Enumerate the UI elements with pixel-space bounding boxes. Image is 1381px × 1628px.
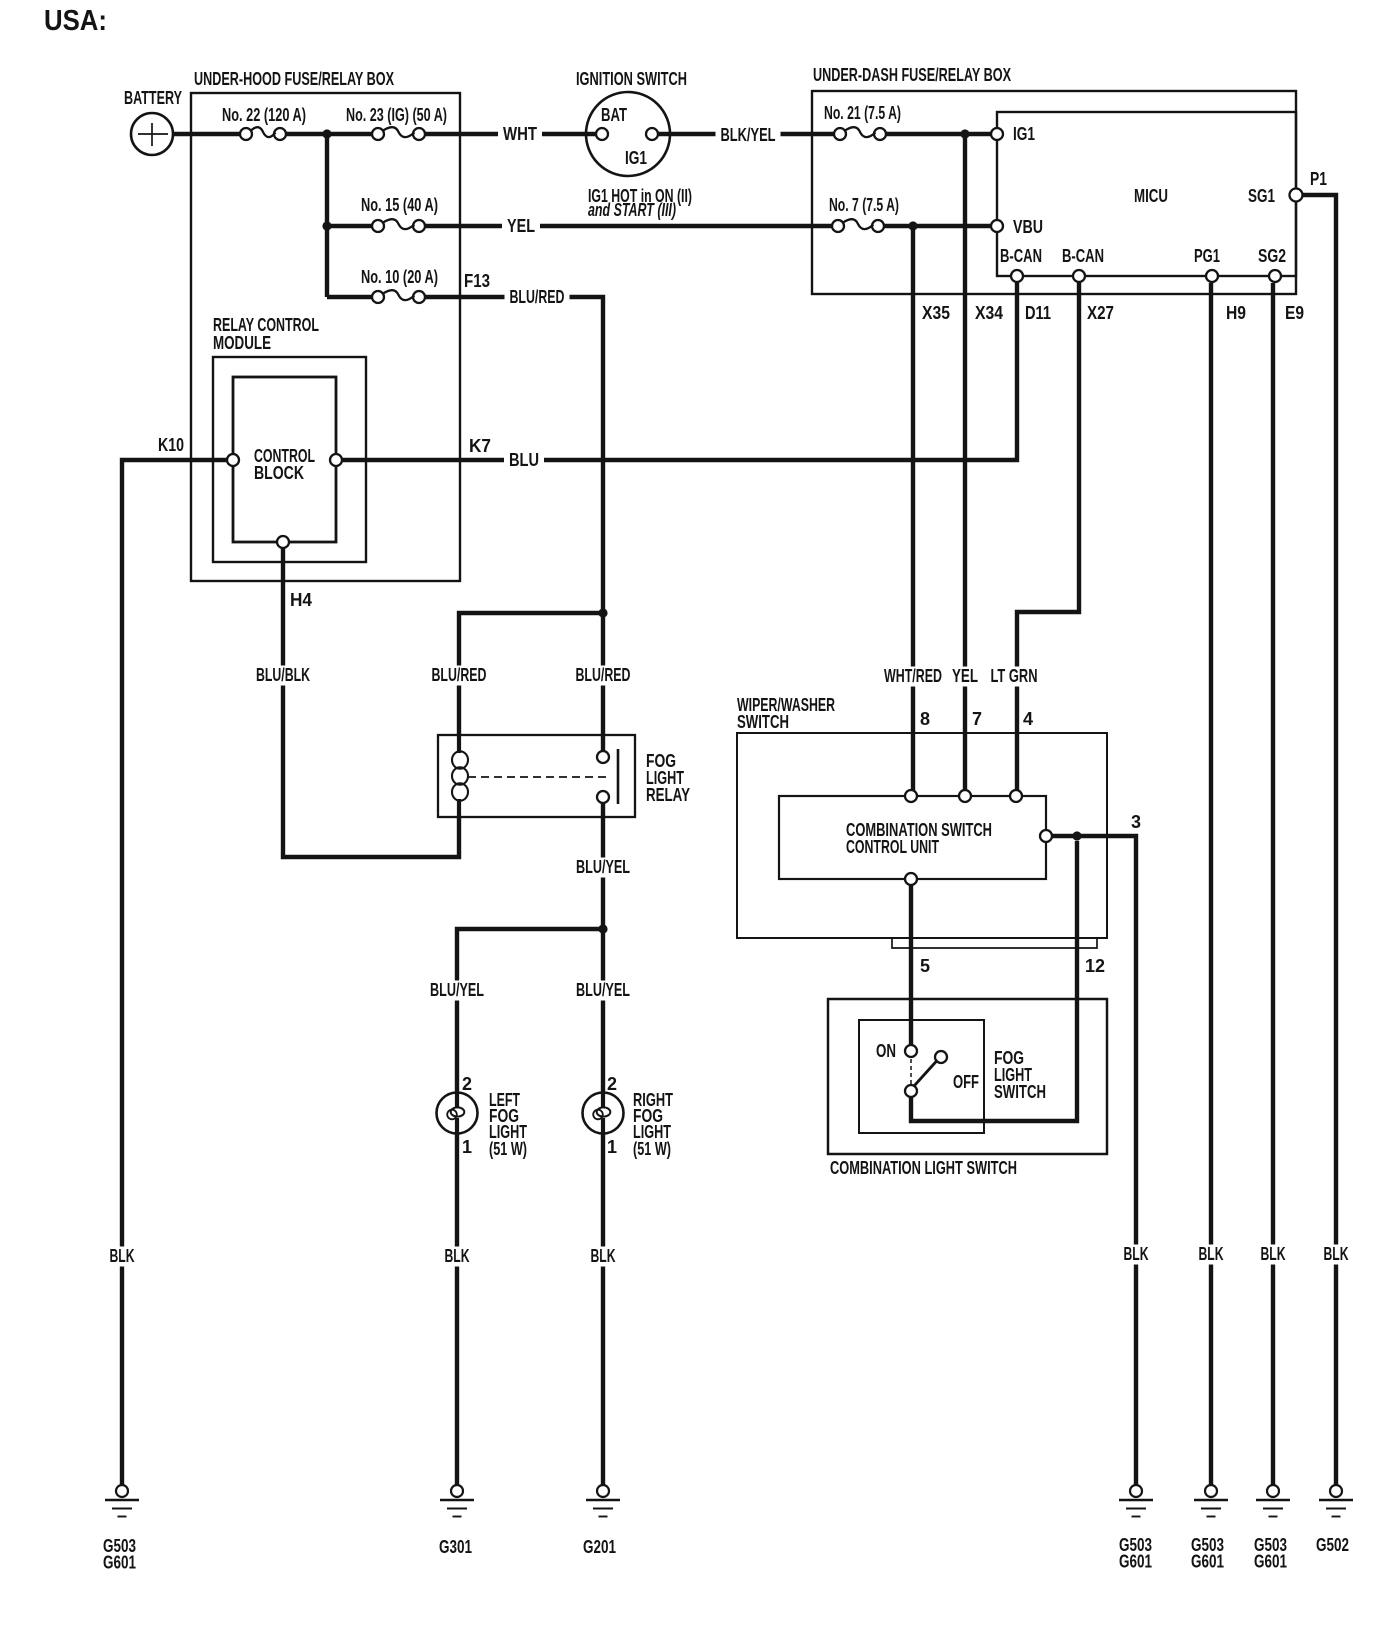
svg-text:IGNITION SWITCH: IGNITION SWITCH (576, 69, 687, 89)
svg-text:X35: X35 (922, 303, 950, 323)
ground G502 (1316, 1485, 1353, 1555)
wire right fog light to ground G201 (601, 1133, 605, 1485)
label BLK P1 (1319, 1244, 1354, 1265)
svg-text:BAT: BAT (601, 105, 627, 125)
svg-text:K7: K7 (469, 436, 491, 456)
svg-text:BLU: BLU (509, 450, 539, 470)
wire fuse 7 to MICU VBU (883, 224, 992, 228)
svg-text:1: 1 (607, 1137, 617, 1157)
wire fuse 15 to fuse 7 (YEL) (424, 224, 833, 228)
svg-text:12: 12 (1085, 956, 1105, 976)
pin 1 left fog light (462, 1137, 472, 1157)
wiper/washer switch box (737, 695, 1107, 938)
terminal control block H4 side (277, 536, 289, 548)
wire H4 BLU/BLK control block to relay coil (283, 548, 459, 857)
svg-text:BLU/BLK: BLU/BLK (256, 665, 310, 685)
fuse No. 15 (361, 195, 438, 232)
wire H9 PG1 to ground (1209, 283, 1213, 1485)
svg-text:IG1: IG1 (1013, 124, 1035, 144)
wire X34 YEL to pin 7 (963, 134, 967, 791)
svg-text:X27: X27 (1087, 303, 1114, 323)
svg-text:BLK: BLK (1324, 1244, 1349, 1264)
svg-text:OFF: OFF (953, 1072, 979, 1092)
wire pin 5 to fog light switch ON (909, 885, 913, 1046)
wire fuse 10 row (327, 295, 373, 299)
wire branch BLU/RED to relay coil (459, 613, 603, 736)
fuse No. 10 (361, 267, 438, 303)
wire fuse 23 to ignition switch BAT (425, 132, 597, 136)
node K10 (158, 435, 184, 455)
svg-text:BLU/RED: BLU/RED (576, 665, 631, 685)
wire battery to fuse 22 (171, 132, 240, 136)
fog light switch contacts (876, 1041, 979, 1097)
terminal control unit pin 5 (905, 873, 930, 976)
label BLK H9 (1194, 1244, 1229, 1265)
svg-text:No. 15 (40 A): No. 15 (40 A) (361, 195, 438, 215)
svg-text:2: 2 (462, 1074, 472, 1094)
wire 12 to fog light switch (911, 841, 1077, 1121)
svg-text:H4: H4 (290, 590, 312, 610)
svg-text:BLU/YEL: BLU/YEL (430, 980, 484, 1000)
svg-text:5: 5 (920, 956, 930, 976)
terminal MICU B-CAN X27 (1062, 246, 1104, 282)
connector bracket under wiper/washer switch (892, 938, 1097, 948)
label BLU/BLK (251, 665, 315, 686)
label BLK/YEL (716, 125, 781, 146)
label BLK K10 (105, 1246, 140, 1267)
fuse No. 7 (829, 195, 899, 232)
svg-text:PG1: PG1 (1194, 246, 1220, 266)
svg-text:G601: G601 (1254, 1552, 1287, 1572)
junction IG1 line X34 (960, 129, 969, 138)
battery (124, 88, 182, 155)
ground G503/G601 (H9) (1191, 1485, 1228, 1572)
svg-text:IG1: IG1 (625, 148, 647, 168)
relay contact (597, 749, 618, 804)
svg-text:BLU/YEL: BLU/YEL (576, 857, 630, 877)
connector X35 (922, 303, 950, 323)
svg-text:RELAY CONTROL: RELAY CONTROL (213, 315, 319, 335)
note IG1 HOT (588, 186, 692, 220)
wire relay contact down BLU/YEL (601, 803, 605, 929)
junction wire 3 / wire 12 (1072, 831, 1081, 840)
svg-text:BLU/YEL: BLU/YEL (576, 980, 630, 1000)
svg-text:(51 W): (51 W) (633, 1139, 671, 1159)
relay coil (452, 736, 468, 816)
svg-text:SG1: SG1 (1248, 186, 1275, 206)
ground G503/G601 (wire 3) (1119, 1485, 1153, 1572)
svg-text:G502: G502 (1316, 1535, 1349, 1555)
relay control module box (213, 315, 366, 562)
svg-text:G301: G301 (439, 1537, 472, 1557)
svg-text:G601: G601 (1191, 1552, 1224, 1572)
junction bus fuse 15 (322, 221, 331, 230)
svg-text:SWITCH: SWITCH (994, 1082, 1046, 1102)
svg-text:and START (III): and START (III) (588, 200, 676, 220)
terminal control unit pin 3 (1040, 812, 1141, 842)
svg-text:BLK: BLK (591, 1246, 616, 1266)
svg-text:No. 21 (7.5 A): No. 21 (7.5 A) (824, 103, 901, 123)
label BLK E9 (1256, 1244, 1291, 1265)
ground G201 (583, 1485, 620, 1557)
svg-text:K10: K10 (158, 435, 184, 455)
svg-text:7: 7 (972, 709, 982, 729)
terminal MICU SG2 (1258, 246, 1286, 282)
fog light switch box (859, 1020, 1046, 1133)
svg-text:F13: F13 (464, 271, 490, 291)
wire fuse 22 to fuse 23 (286, 132, 372, 136)
svg-text:SG2: SG2 (1258, 246, 1286, 266)
fuse No. 23 (346, 105, 447, 140)
svg-text:D11: D11 (1025, 303, 1051, 323)
label BLU/RED right (571, 665, 636, 686)
node pin 12 (1085, 956, 1105, 976)
connector X27 (1087, 303, 1114, 323)
combination light switch box (828, 999, 1107, 1178)
svg-text:COMBINATION LIGHT SWITCH: COMBINATION LIGHT SWITCH (830, 1158, 1017, 1178)
svg-text:USA:: USA: (44, 5, 107, 37)
svg-text:MICU: MICU (1134, 186, 1168, 206)
terminal MICU IG1 (991, 124, 1035, 144)
pin 2 left fog light (462, 1074, 472, 1094)
terminal MICU SG1 (1248, 186, 1303, 206)
svg-text:LT GRN: LT GRN (991, 666, 1038, 686)
wire bus fuse 22 down to fuse 10 row (325, 134, 329, 297)
terminal control block K7 side (330, 454, 342, 466)
svg-text:RELAY: RELAY (646, 785, 690, 805)
junction VBU line X35 (908, 221, 917, 230)
svg-text:YEL: YEL (952, 666, 978, 686)
label LT GRN (986, 666, 1043, 687)
svg-text:B-CAN: B-CAN (1000, 246, 1042, 266)
label BLU/RED left (427, 665, 492, 686)
svg-text:WHT/RED: WHT/RED (884, 666, 942, 686)
svg-text:B-CAN: B-CAN (1062, 246, 1104, 266)
svg-text:YEL: YEL (507, 216, 535, 236)
under-hood fuse/relay box (191, 69, 460, 581)
label BLU (504, 450, 544, 471)
svg-text:G601: G601 (1119, 1552, 1152, 1572)
label BLU/YEL left (425, 980, 489, 1001)
svg-text:BLK: BLK (110, 1246, 135, 1266)
svg-text:WHT: WHT (503, 124, 537, 144)
svg-text:BLK: BLK (1124, 1244, 1149, 1264)
svg-text:P1: P1 (1310, 169, 1327, 189)
svg-text:UNDER-DASH FUSE/RELAY BOX: UNDER-DASH FUSE/RELAY BOX (813, 65, 1011, 85)
ignition switch (576, 69, 687, 176)
svg-text:BLK/YEL: BLK/YEL (721, 125, 776, 145)
right fog light bulb (583, 1090, 674, 1159)
terminal control unit pin 7 (959, 709, 982, 802)
connector X34 (975, 303, 1003, 323)
wire to right fog light (601, 929, 605, 1093)
wire X27 LT GRN to pin 4 (1017, 283, 1079, 791)
connector D11 (1025, 303, 1051, 323)
wire left fog light to ground G301 (455, 1133, 459, 1485)
combination switch control unit box (779, 796, 1046, 879)
svg-text:4: 4 (1023, 709, 1033, 729)
svg-text:BLOCK: BLOCK (254, 463, 304, 483)
connector E9 (1285, 303, 1304, 323)
fuse No. 21 (824, 103, 901, 140)
ground G301 (439, 1485, 474, 1557)
wire fuse 21 to MICU IG1 (885, 132, 992, 136)
svg-text:3: 3 (1131, 812, 1141, 832)
svg-text:2: 2 (607, 1074, 617, 1094)
terminal control block K10 side (227, 454, 239, 466)
terminal control unit pin 4 (1010, 709, 1033, 802)
terminal MICU B-CAN D11 (1000, 246, 1042, 282)
svg-text:ON: ON (876, 1041, 896, 1061)
fuse No. 22 (222, 105, 306, 140)
ground G503/G601 (E9) (1254, 1485, 1290, 1572)
terminal MICU VBU (991, 217, 1043, 237)
svg-text:MODULE: MODULE (213, 333, 271, 353)
svg-text:BATTERY: BATTERY (124, 88, 182, 108)
svg-text:G201: G201 (583, 1537, 616, 1557)
terminal control unit pin 8 (905, 709, 930, 802)
label BLK wire3 (1119, 1244, 1154, 1265)
svg-text:8: 8 (920, 709, 930, 729)
svg-text:BLU/RED: BLU/RED (510, 287, 565, 307)
terminal MICU PG1 (1194, 246, 1220, 282)
wire BLU control block K7 to MICU B-CAN D11 (342, 283, 1017, 460)
label WHT/RED (879, 666, 947, 687)
pin 1 right fog light (607, 1137, 617, 1157)
label BLK G201 (586, 1246, 621, 1267)
label BLU/RED row3 (505, 287, 570, 308)
node H4 (290, 590, 312, 610)
node P1 (1310, 169, 1327, 189)
wire fuse 10 to F13 corner (BLU/RED) (424, 297, 603, 751)
under-dash fuse/relay box (812, 65, 1296, 294)
svg-text:No. 22 (120 A): No. 22 (120 A) (222, 105, 306, 125)
label BLU/YEL right (571, 980, 635, 1001)
svg-text:BLK: BLK (1199, 1244, 1224, 1264)
svg-text:E9: E9 (1285, 303, 1304, 323)
junction BLU/YEL branch (598, 924, 607, 933)
fog light relay box (438, 735, 690, 817)
label YEL X34 (947, 666, 983, 687)
svg-text:BLK: BLK (445, 1246, 470, 1266)
svg-text:No. 7 (7.5 A): No. 7 (7.5 A) (829, 195, 899, 215)
svg-text:UNDER-HOOD FUSE/RELAY BOX: UNDER-HOOD FUSE/RELAY BOX (194, 69, 394, 89)
node K7 (469, 436, 491, 456)
wire P1 from SG1 to ground G502 (1302, 195, 1336, 1485)
wire X35 WHT/RED to pin 8 (911, 226, 915, 791)
left fog light bulb (437, 1090, 528, 1159)
ground G503/G601 left (103, 1485, 139, 1573)
label BLK G301 (440, 1246, 475, 1267)
svg-text:No. 23 (IG) (50 A): No. 23 (IG) (50 A) (346, 105, 447, 125)
wire E9 SG2 to ground (1271, 283, 1275, 1485)
wire 3 from control unit to ground (1052, 836, 1136, 1485)
relay linkage dashed (468, 776, 610, 778)
control block box (233, 377, 336, 542)
wire ignition switch IG1 to fuse 21 (657, 132, 835, 136)
svg-text:(51 W): (51 W) (489, 1139, 527, 1159)
wire K10 from control block to ground (122, 460, 227, 1485)
connector H9 (1226, 303, 1246, 323)
svg-text:CONTROL UNIT: CONTROL UNIT (846, 837, 939, 857)
wire bus to fuse 15 (327, 224, 373, 228)
label WHT (498, 124, 542, 145)
svg-text:BLU/RED: BLU/RED (432, 665, 487, 685)
svg-text:BLK: BLK (1261, 1244, 1286, 1264)
MICU U1 box (997, 112, 1296, 276)
node F13 (464, 271, 490, 291)
title USA (44, 5, 107, 37)
svg-text:No. 10 (20 A): No. 10 (20 A) (361, 267, 438, 287)
svg-text:H9: H9 (1226, 303, 1246, 323)
label BLU/YEL relay (571, 857, 635, 878)
svg-text:VBU: VBU (1013, 217, 1043, 237)
svg-text:1: 1 (462, 1137, 472, 1157)
svg-text:SWITCH: SWITCH (737, 712, 789, 732)
pin 2 right fog light (607, 1074, 617, 1094)
wire branch to left fog light (457, 929, 603, 1093)
junction BLU/RED branch (598, 608, 607, 617)
svg-text:G601: G601 (103, 1553, 136, 1573)
junction fuse 22/23 bus (322, 129, 331, 138)
label YEL row2 (502, 216, 540, 237)
svg-text:X34: X34 (975, 303, 1003, 323)
